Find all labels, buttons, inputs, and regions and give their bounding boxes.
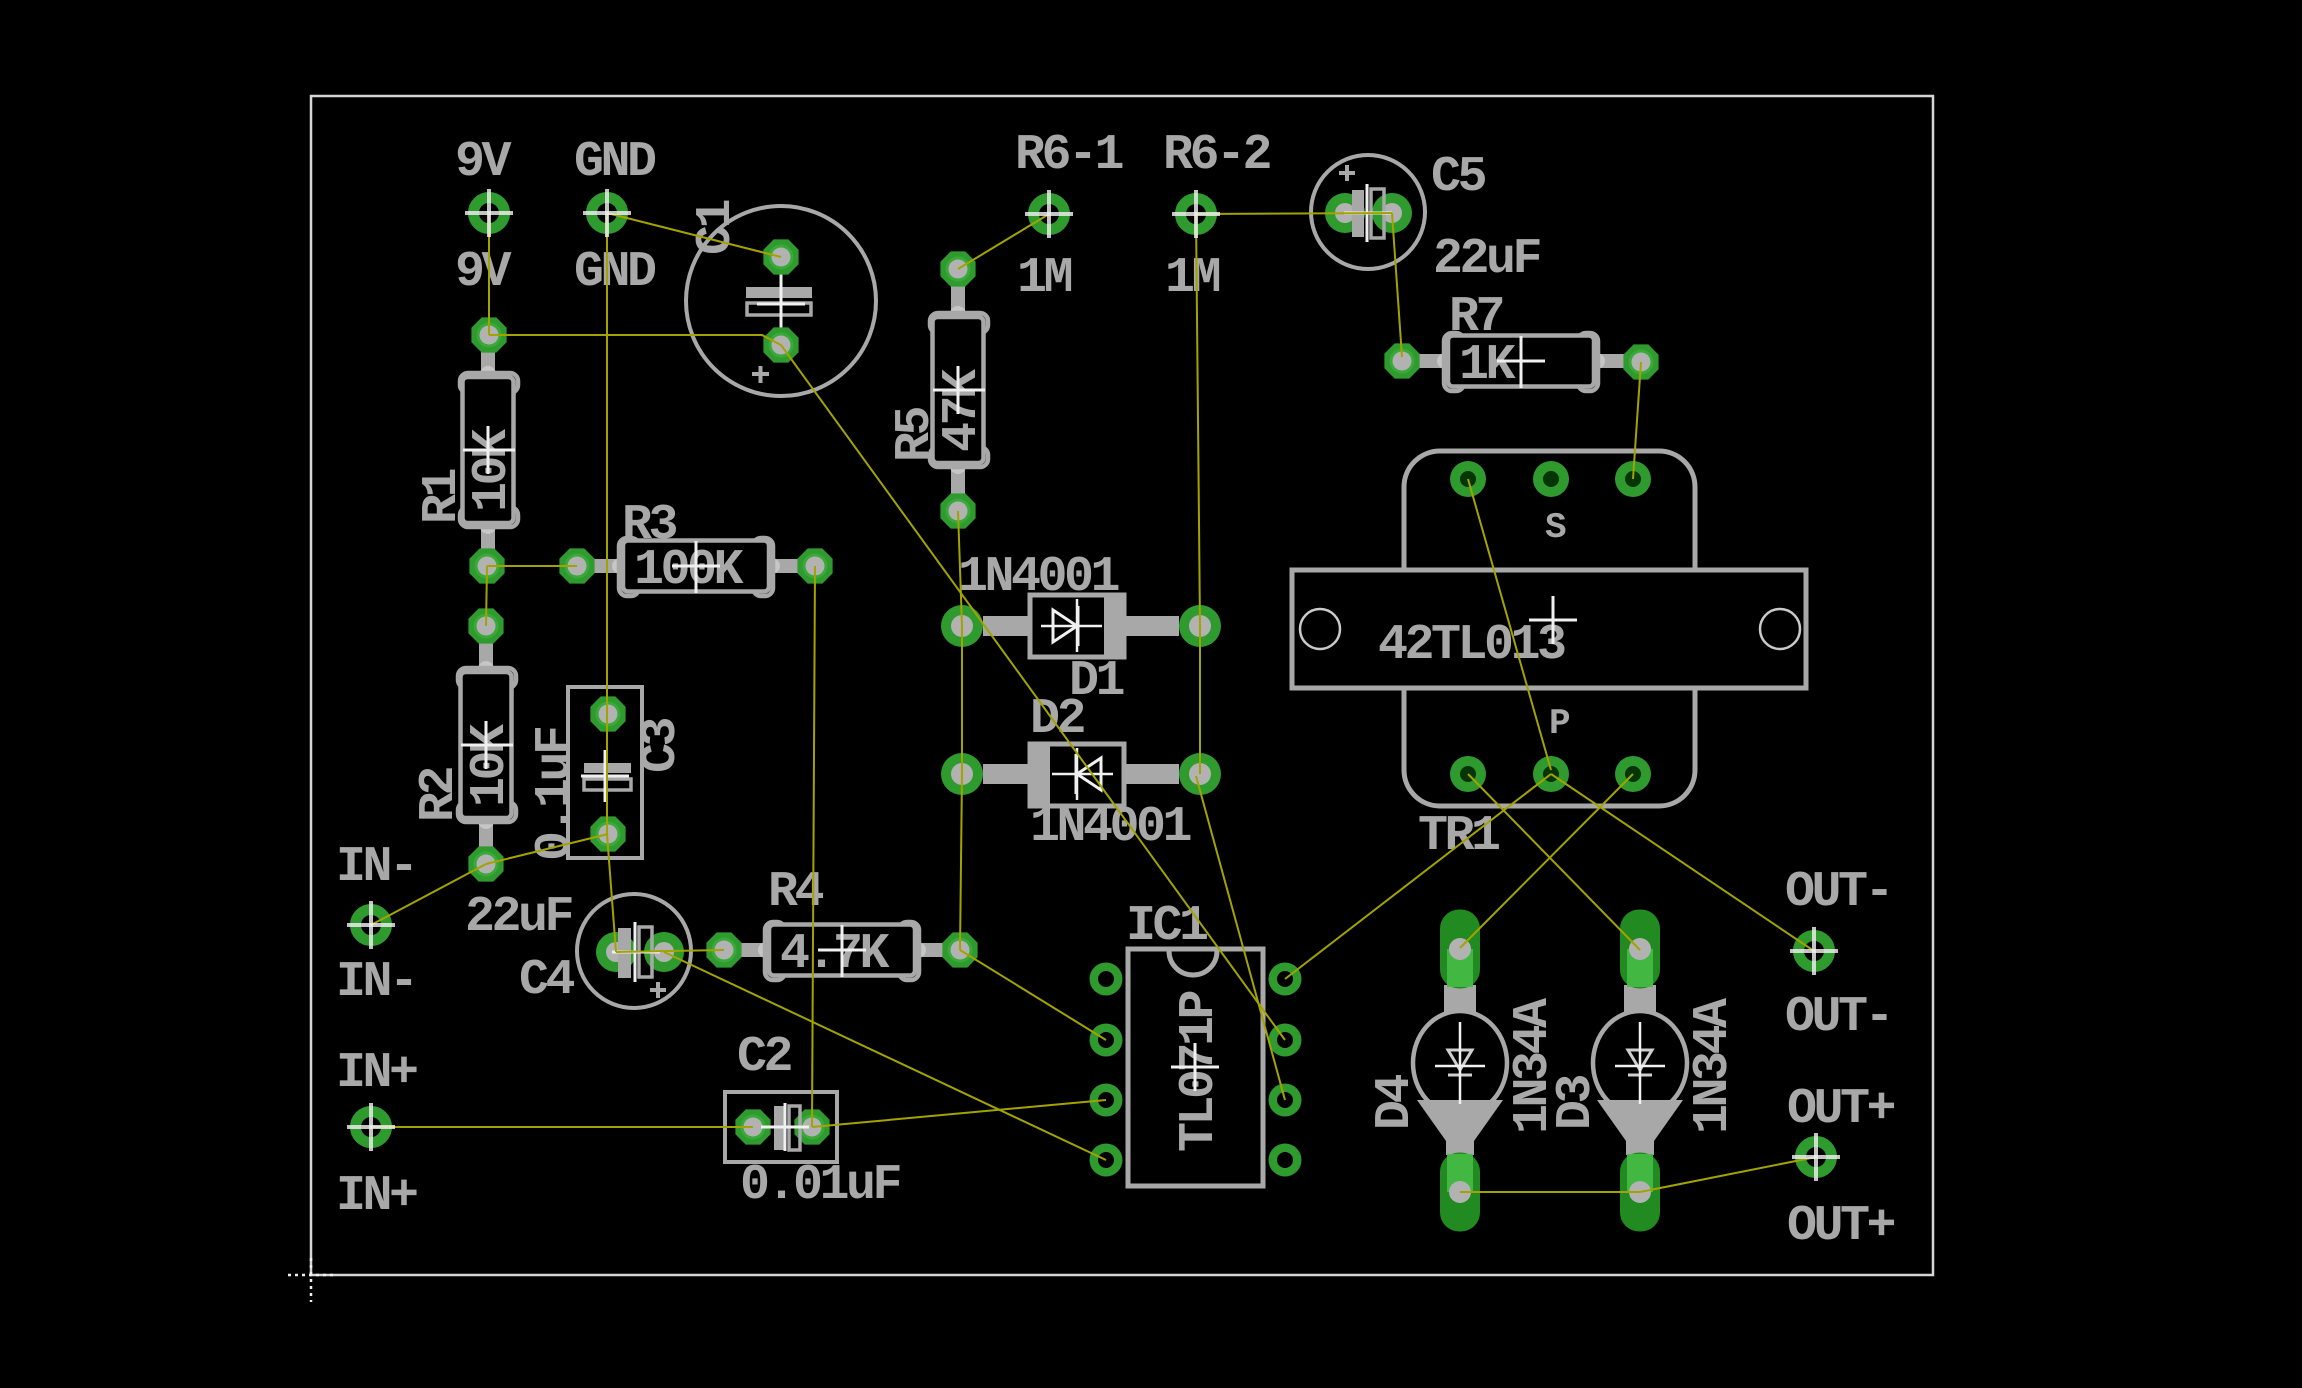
wire R1.2 to R3.1: [487, 565, 577, 567]
svg-text:R2: R2: [411, 767, 468, 822]
wire IN+ to C2.1: [371, 1126, 753, 1128]
wire TR1 S1 to TR1 P2: [1468, 479, 1551, 770]
pad TR1 S3: [1615, 461, 1651, 497]
wire R6-2 to D1/D2 cathodes: [1196, 214, 1200, 774]
wire C1+ to IC1 pin 7: [781, 345, 1285, 1040]
wire GND to C3/C4: [607, 213, 616, 952]
capacitor C4 plates: [612, 922, 666, 998]
crosshair of pad IN-: [347, 901, 395, 949]
svg-text:D3: D3: [1548, 1075, 1605, 1130]
wire GND to C1-: [607, 213, 781, 257]
crosshair of pad OUT-: [1790, 927, 1838, 975]
crosshair of pad R6-1: [1025, 190, 1073, 238]
wire R3.2 to C2.2: [812, 566, 815, 1127]
pad C4.+: [596, 932, 636, 972]
crosshair of pad IN+: [347, 1103, 395, 1151]
pad D3.1 anode: [1620, 1153, 1660, 1232]
svg-text:R3: R3: [622, 497, 677, 554]
svg-text:9V: 9V: [455, 134, 512, 191]
svg-text:R5: R5: [887, 407, 944, 462]
pad R3.2: [797, 548, 832, 583]
pad GND: [592, 198, 623, 229]
pad C4.-: [644, 932, 684, 972]
svg-text:1M: 1M: [1017, 250, 1072, 307]
crosshair of pad R6-2: [1172, 190, 1220, 238]
pad IN-: [356, 910, 387, 941]
svg-text:R7: R7: [1449, 289, 1503, 346]
pad C1.-: [763, 239, 798, 274]
svg-text:1M: 1M: [1165, 250, 1220, 307]
pad IC1 pin 1: [1090, 963, 1123, 996]
svg-text:10K: 10K: [464, 429, 521, 512]
pad R2.1: [468, 608, 503, 643]
svg-text:OUT-: OUT-: [1785, 864, 1891, 921]
pad R4.1: [706, 932, 741, 967]
pad R1.1 junction 9V: [471, 317, 506, 352]
capacitor C3 body: [568, 687, 642, 858]
transformer TR1 (42TL013): [1292, 451, 1806, 806]
crosshair of pad GND: [583, 189, 631, 237]
board origin mark: [288, 1258, 334, 1302]
pad R6-1: [1034, 199, 1065, 230]
wire R4.2 to IC1 pin 2: [960, 950, 1106, 1040]
svg-text:OUT+: OUT+: [1787, 1198, 1895, 1255]
pad IC1 pin 2: [1090, 1024, 1123, 1057]
svg-text:S: S: [1545, 507, 1566, 548]
pad TR1 P3: [1615, 756, 1651, 792]
resistor R3 (100K): [588, 538, 804, 599]
pad C2.1: [735, 1109, 770, 1144]
svg-text:C1: C1: [688, 200, 745, 255]
pad D1.2 cathode: [1179, 605, 1221, 647]
svg-text:C4: C4: [519, 952, 575, 1009]
pad D2.2 cathode: [1179, 753, 1221, 795]
pad R7.2: [1623, 344, 1658, 379]
pad OUT-: [1799, 936, 1830, 967]
pad D4.1 anode: [1440, 1153, 1480, 1232]
wire C2.2 to IC1 pin 3: [812, 1100, 1106, 1127]
wire R5.1 to R6-1: [958, 214, 1049, 269]
wire TR1 P2 to IC1 pin 8: [1285, 774, 1551, 979]
pad 9V: [474, 198, 505, 229]
svg-text:R4: R4: [768, 864, 824, 921]
resistor R1 (10K): [460, 342, 521, 558]
wire C4+ to R4.1: [616, 950, 724, 952]
svg-text:GND: GND: [574, 244, 656, 301]
pad R5.2: [940, 493, 975, 528]
resistor R5 (47K): [930, 282, 991, 498]
svg-text:IN+: IN+: [336, 1168, 417, 1225]
capacitor C5 plates: [1339, 165, 1392, 242]
pad C2.2: [794, 1109, 829, 1144]
wire TR1 P2 to OUT-: [1551, 774, 1814, 951]
pad IC1 pin 6: [1269, 1084, 1302, 1117]
pad IC1 pin 7: [1269, 1024, 1302, 1057]
wire D2 cathode to IC1 pin 6: [1196, 776, 1285, 1100]
svg-text:TR1: TR1: [1418, 808, 1499, 865]
svg-text:OUT-: OUT-: [1785, 989, 1891, 1046]
op-amp IC1 (TL071P): [1128, 949, 1263, 1186]
svg-text:IN-: IN-: [336, 954, 416, 1011]
diode D2 (1N4001): [983, 744, 1179, 806]
diode D1 (1N4001): [983, 595, 1179, 657]
resistor R2 (10K): [458, 637, 519, 853]
crosshair of pad 9V: [465, 189, 513, 237]
svg-text:0.01uF: 0.01uF: [740, 1157, 900, 1214]
svg-text:P: P: [1549, 703, 1570, 744]
wire D4 anode to D3 anode: [1460, 1191, 1640, 1193]
svg-text:1N4001: 1N4001: [958, 549, 1119, 606]
pad R6-2: [1181, 199, 1212, 230]
diode D4 (1N34A) body: [1413, 985, 1507, 1155]
wire R6-2 to C5: [1196, 213, 1392, 214]
capacitor C4 body: [577, 894, 691, 1008]
svg-text:IC1: IC1: [1126, 898, 1207, 955]
diode D3 (1N34A) body: [1593, 985, 1687, 1155]
resistor R4 (4.7K): [734, 922, 950, 983]
svg-text:1N34A: 1N34A: [1685, 998, 1742, 1134]
svg-text:D4: D4: [1367, 1074, 1424, 1130]
pad TR1 S2: [1533, 461, 1569, 497]
svg-text:22uF: 22uF: [465, 889, 572, 946]
pad OUT+: [1801, 1142, 1832, 1173]
pad C5.+: [1325, 193, 1365, 233]
pad C5.-: [1372, 193, 1412, 233]
wire C5+ to R7.1: [1392, 213, 1402, 357]
pad IC1 pin 4: [1090, 1144, 1123, 1177]
wire D1.1 to D2.1: [961, 626, 963, 774]
svg-text:C3: C3: [633, 718, 690, 773]
wire D3 anode to OUT+: [1640, 1157, 1816, 1192]
pad TR1 P2: [1533, 756, 1569, 792]
svg-text:IN-: IN-: [336, 839, 416, 896]
wire D2.1 to R4.2: [960, 774, 962, 950]
capacitor C3 plates: [581, 750, 631, 802]
svg-text:C2: C2: [737, 1029, 792, 1086]
pad IC1 pin 3: [1090, 1084, 1123, 1117]
svg-text:C5: C5: [1431, 149, 1486, 206]
pad C3.2: [590, 816, 625, 851]
pad D1.1 anode: [941, 605, 983, 647]
board outline: [311, 96, 1933, 1275]
svg-text:TL071P: TL071P: [1171, 991, 1228, 1152]
pad TR1 P1: [1450, 756, 1486, 792]
capacitor C5 body: [1311, 155, 1425, 269]
svg-text:GND: GND: [574, 134, 656, 191]
svg-text:R6-1: R6-1: [1015, 127, 1123, 184]
svg-text:42TL013: 42TL013: [1378, 617, 1565, 674]
pad R3.1: [559, 548, 594, 583]
svg-text:R1: R1: [414, 469, 471, 524]
svg-text:OUT+: OUT+: [1787, 1081, 1895, 1138]
svg-text:1N4001: 1N4001: [1030, 799, 1191, 856]
svg-text:R6-2: R6-2: [1163, 127, 1271, 184]
wire TR1 P1 to D3 cathode: [1468, 774, 1640, 950]
svg-text:4.7K: 4.7K: [780, 926, 890, 983]
pad D3.2 cathode: [1620, 910, 1660, 989]
pad R4.2: [942, 932, 977, 967]
pad TR1 S1: [1450, 461, 1486, 497]
resistor R7 (1K): [1413, 333, 1629, 394]
pad R2.2: [468, 846, 503, 881]
wire R1.2 to R2.1: [486, 566, 487, 626]
crosshair of pad OUT+: [1792, 1133, 1840, 1181]
pad IC1 pin 5: [1269, 1144, 1302, 1177]
pad IN+: [356, 1112, 387, 1143]
pad C3.1: [590, 696, 625, 731]
pad R7.1: [1384, 343, 1419, 378]
svg-text:10K: 10K: [462, 724, 519, 807]
wire R2.2 to C3.2: [486, 834, 608, 864]
pad D4.2 cathode: [1440, 910, 1480, 989]
svg-text:IN+: IN+: [336, 1045, 417, 1102]
capacitor C2 body: [725, 1092, 837, 1162]
pad IC1 pin 8: [1269, 963, 1302, 996]
wire R5.2 to D1.1: [958, 511, 962, 626]
pad R5.1: [940, 251, 975, 286]
wire TR1 P3 to D4 cathode: [1460, 774, 1633, 948]
wire 9V to R1.1: [488, 213, 490, 335]
pad C1.+: [763, 327, 798, 362]
wire IN- to R2.2: [371, 864, 486, 925]
wire R7.2 to TR1 S3: [1633, 362, 1641, 479]
wire R1.1 to C1+: [489, 335, 781, 345]
capacitor C2 plates: [761, 1103, 809, 1151]
wire C4- to IC1 pin 4: [664, 952, 1106, 1160]
pad R1.2: [469, 548, 504, 583]
pad D2.1 anode: [941, 753, 983, 795]
svg-text:22uF: 22uF: [1433, 231, 1540, 288]
svg-text:9V: 9V: [455, 244, 512, 301]
capacitor C1 body: [686, 206, 876, 396]
